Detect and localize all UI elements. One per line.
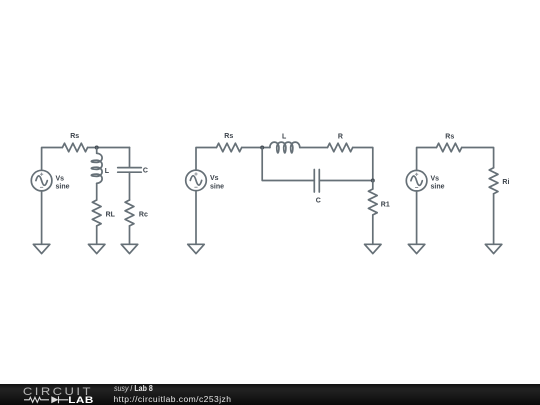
wire inductor to RL — [96, 183, 98, 200]
logo schematic wire+resistor+diode — [24, 397, 68, 404]
wire L to R — [300, 147, 328, 149]
svg-text:sine: sine — [56, 184, 70, 191]
sine wave inside source (middle) — [190, 176, 201, 185]
wire Ri to ground — [493, 194, 495, 245]
lower branch right wire — [319, 180, 373, 182]
wire Rs to corner, down to Ri — [462, 148, 494, 168]
sine wave inside source (right) — [411, 176, 422, 185]
resistor Ri (vertical) — [489, 168, 498, 194]
source V3 circle (right) — [406, 170, 427, 191]
capacitor C (middle, vertical plates) — [314, 170, 319, 193]
wire RL to ground — [96, 226, 98, 244]
footer url line — [114, 395, 232, 403]
node junction (middle top) — [260, 146, 264, 150]
wire source to ground (middle) — [195, 191, 197, 245]
wire C to Rc — [129, 172, 131, 200]
minus sign (middle source) — [195, 186, 197, 188]
resistor RL (vertical) — [92, 200, 101, 226]
plus sign (right source) — [415, 173, 417, 175]
node junction (middle right) — [371, 179, 375, 183]
logo diode triangle — [51, 397, 58, 404]
source V1 circle (left) — [31, 170, 52, 191]
svg-text:L: L — [105, 168, 110, 175]
resistor Rs (left) — [62, 143, 87, 152]
minus sign (right source) — [415, 187, 417, 189]
svg-text:Vs: Vs — [210, 175, 219, 182]
ground (right source) — [408, 244, 425, 253]
wire top-left: source to Rs — [42, 148, 63, 171]
wire node to capacitor C — [129, 148, 131, 168]
svg-text:LAB: LAB — [68, 397, 93, 405]
lower branch left wire — [262, 148, 314, 181]
svg-text:Rs: Rs — [445, 133, 454, 140]
svg-text:Rs: Rs — [70, 133, 79, 140]
inductor L (left, vertical) — [91, 153, 102, 183]
svg-text:sine: sine — [431, 184, 445, 191]
wire node to R1 — [372, 181, 374, 190]
minus sign (left source) — [40, 186, 42, 188]
sine wave inside source (left) — [36, 176, 47, 185]
ground (middle source) — [188, 244, 205, 253]
wire node to inductor — [96, 148, 98, 154]
node junction (left) — [95, 146, 99, 150]
resistor Rs (middle) — [217, 143, 242, 152]
svg-text:L: L — [282, 133, 287, 140]
footer bar — [0, 384, 540, 405]
wire Rs to node — [88, 147, 130, 149]
ground (below Ri) — [485, 244, 502, 253]
svg-text:C: C — [316, 198, 321, 205]
ground (below RL) — [88, 244, 105, 253]
svg-text:RL: RL — [106, 211, 116, 218]
capacitor C (left, horizontal plates) — [118, 168, 142, 173]
source V2 circle (middle) — [186, 170, 207, 191]
ground (below Rc) — [121, 244, 138, 253]
inductor L (middle, horizontal) — [270, 142, 300, 153]
svg-text:Vs: Vs — [431, 176, 440, 183]
wire source to Rs (right) — [417, 148, 437, 171]
wire source to ground (left) — [41, 191, 43, 244]
ground (left source) — [33, 244, 50, 253]
resistor R1 (vertical) — [368, 189, 377, 215]
CircuitLab logo wordmark — [0, 384, 110, 405]
resistor R (middle) — [328, 143, 353, 152]
ground (below R1) — [365, 244, 382, 253]
plus sign (middle source) — [195, 173, 197, 175]
plus sign (left source) — [40, 173, 42, 175]
svg-text:Vs: Vs — [56, 175, 65, 182]
svg-text:Rc: Rc — [139, 211, 148, 218]
wire R to right corner, down — [353, 148, 373, 181]
resistor Rs (right) — [437, 143, 462, 152]
svg-text:Rs: Rs — [224, 133, 233, 140]
svg-text:R1: R1 — [381, 201, 390, 208]
resistor Rc (vertical) — [125, 200, 134, 226]
svg-text:sine: sine — [210, 183, 224, 190]
svg-text:R: R — [338, 133, 343, 140]
wire source to ground (right) — [416, 191, 418, 244]
svg-text:C: C — [143, 168, 148, 175]
wire Rc to ground — [129, 226, 131, 244]
svg-text:Ri: Ri — [502, 179, 509, 186]
footer title line — [114, 385, 153, 393]
wire Rs to node (middle) — [242, 147, 270, 149]
wire R1 to ground — [372, 215, 374, 244]
wire source to Rs (middle) — [196, 148, 217, 171]
